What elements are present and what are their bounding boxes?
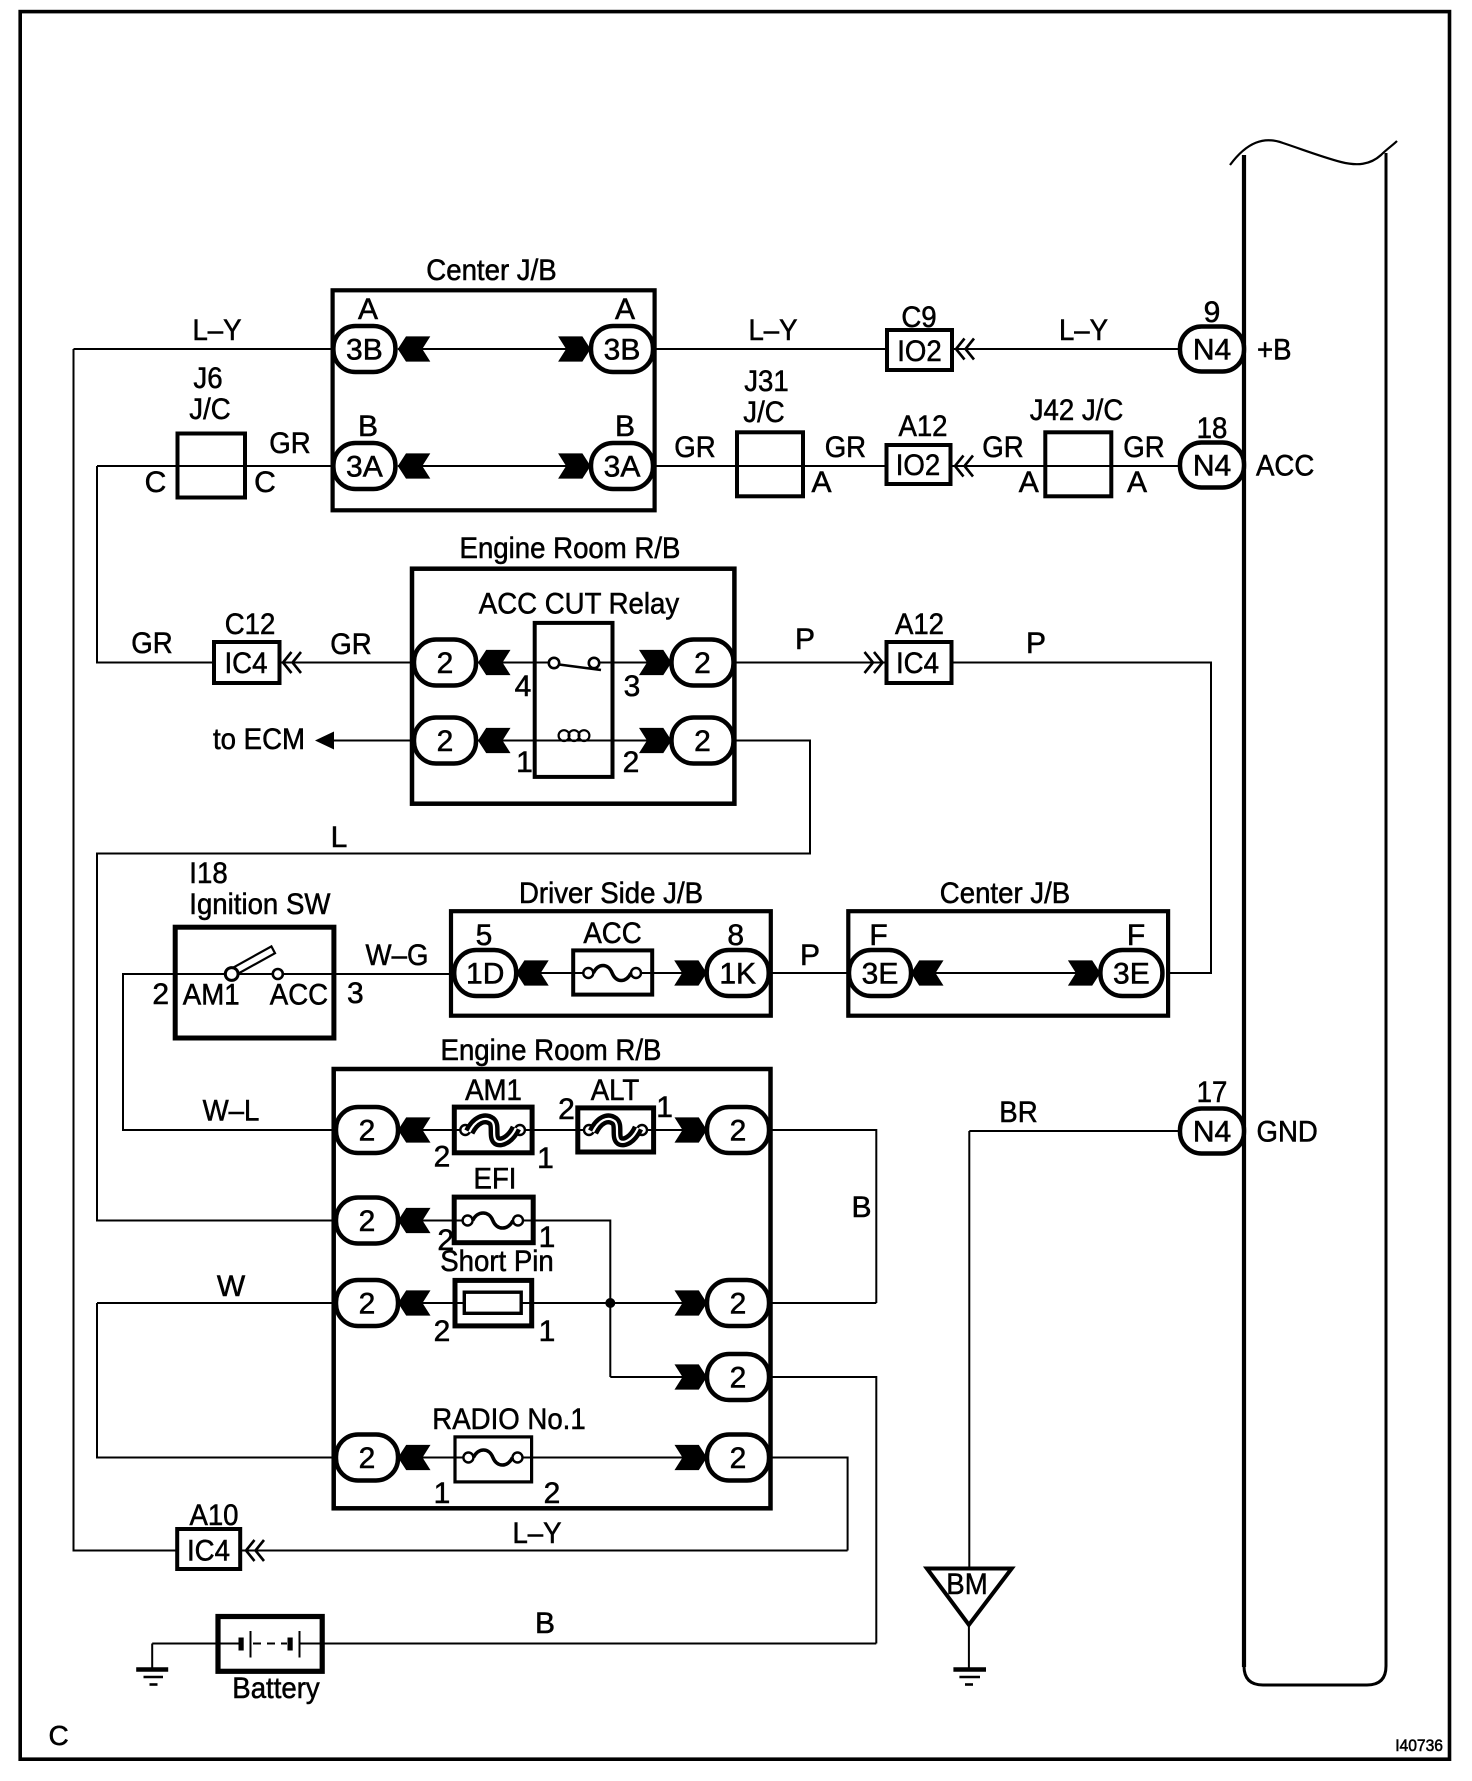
svg-text:Center J/B: Center J/B: [426, 254, 556, 287]
connector 2 relay lower-left: [414, 718, 476, 764]
svg-text:2: 2: [434, 1315, 451, 1348]
svg-text:1: 1: [516, 746, 533, 779]
svg-text:2: 2: [730, 1442, 747, 1475]
svg-text:B: B: [615, 410, 635, 443]
wire: B from battery to fourth connector vertical: [322, 1607, 876, 1644]
arrow AM1 row right: [675, 1117, 708, 1142]
relay coil: [559, 730, 590, 741]
svg-text:3B: 3B: [346, 334, 383, 367]
svg-text:Ignition SW: Ignition SW: [189, 888, 331, 921]
wire: ignition internal: [175, 973, 334, 975]
junction connector J6 J/C: [145, 362, 276, 499]
node: figure number I40736: [1395, 1736, 1443, 1755]
wire: L-Y from C9 to N4 pin 9: [952, 314, 1180, 349]
connector 2 relay lower-right: [672, 718, 734, 764]
svg-text:3A: 3A: [346, 451, 383, 484]
ground (BM side): [953, 1670, 986, 1685]
svg-text:C: C: [145, 466, 167, 499]
svg-text:L–Y: L–Y: [748, 314, 797, 347]
pin 2 of ignition: [152, 978, 169, 1011]
arrow into 3E right: [1068, 960, 1101, 985]
svg-text:3: 3: [347, 977, 364, 1010]
node: GR label right of J6: [269, 427, 310, 460]
connector 3B pin A (left): [333, 293, 395, 372]
svg-text:2: 2: [694, 647, 711, 680]
relay: ACC CUT Relay: [479, 588, 679, 621]
wire: relay row coil: [414, 740, 672, 742]
node: GR label right of J42: [1123, 431, 1164, 499]
ignition switch lever and contacts: [225, 946, 282, 980]
svg-text:2: 2: [623, 746, 640, 779]
fuse AM1 (fusible link): [434, 1074, 554, 1175]
svg-text:2: 2: [152, 978, 169, 1011]
svg-text:IO2: IO2: [896, 449, 941, 482]
svg-text:A: A: [1019, 466, 1039, 499]
pin 3 of ignition: [347, 977, 364, 1010]
connector C12 IC4: [214, 608, 301, 683]
svg-text:I40736: I40736: [1395, 1736, 1443, 1755]
svg-text:L–Y: L–Y: [1059, 314, 1108, 347]
wire: EFI output down across Short Pin row: [532, 1221, 610, 1378]
svg-text:ALT: ALT: [591, 1074, 640, 1107]
svg-text:2: 2: [434, 1141, 451, 1174]
svg-text:C12: C12: [225, 608, 276, 641]
pin 3: [624, 670, 641, 703]
svg-text:A: A: [811, 466, 831, 499]
svg-text:3E: 3E: [1113, 958, 1150, 991]
svg-text:2: 2: [437, 647, 454, 680]
svg-text:IC4: IC4: [896, 647, 939, 680]
arrow relay upper-right: [639, 650, 672, 675]
connector 2 fourth (EFI output): [707, 1354, 769, 1400]
relay inner box: [535, 623, 613, 777]
svg-text:F: F: [869, 919, 887, 952]
svg-text:AM1: AM1: [183, 978, 240, 1011]
svg-text:A: A: [1127, 466, 1147, 499]
svg-text:Short Pin: Short Pin: [440, 1245, 554, 1278]
wire: RADIO row inside: [398, 1457, 707, 1459]
svg-text:L–Y: L–Y: [192, 314, 241, 347]
svg-text:1: 1: [539, 1315, 556, 1348]
wire: harness trunk left bar: [1242, 155, 1246, 1667]
svg-text:B: B: [358, 410, 378, 443]
svg-text:F: F: [1127, 919, 1145, 952]
short pin component: [434, 1245, 556, 1348]
connector 2 AM1 row left: [336, 1107, 398, 1153]
arrow into 3E left: [911, 960, 944, 985]
svg-text:B: B: [535, 1607, 555, 1640]
pin 4: [515, 670, 532, 703]
svg-text:Battery: Battery: [232, 1672, 319, 1705]
svg-text:GR: GR: [674, 431, 715, 464]
arrow EFI row left: [398, 1208, 431, 1233]
junction block: Driver Side J/B: [451, 877, 771, 1016]
svg-text:1K: 1K: [719, 958, 756, 991]
wire: Short Pin row to B vertical: [769, 1302, 876, 1304]
svg-text:3E: 3E: [862, 958, 899, 991]
node: GR label left of J31: [674, 431, 715, 464]
node: GR label right of C12: [330, 628, 371, 661]
node: W-L label: [203, 1095, 260, 1128]
switch I18 Ignition SW: [175, 857, 334, 1038]
junction block: Center J/B (lower): [848, 877, 1168, 1016]
svg-text:Center J/B: Center J/B: [940, 877, 1070, 910]
svg-text:IC4: IC4: [225, 647, 268, 680]
svg-text:1: 1: [434, 1477, 451, 1510]
svg-text:GND: GND: [1257, 1116, 1318, 1149]
fuse EFI: [437, 1163, 555, 1258]
svg-text:2: 2: [359, 1205, 376, 1238]
svg-text:2: 2: [558, 1093, 575, 1126]
wire: P from 1K to Center J/B 3E: [769, 939, 849, 973]
svg-text:2: 2: [544, 1477, 561, 1510]
svg-text:Driver Side J/B: Driver Side J/B: [519, 877, 703, 910]
svg-text:L: L: [331, 821, 348, 854]
wire: AM1-ALT row inside: [398, 1129, 707, 1131]
connector 1D pin 5: [454, 919, 516, 996]
connector 2 AM1 row right: [707, 1107, 769, 1153]
connector 2 relay upper-left: [414, 640, 476, 686]
connector 2 RADIO row right: [707, 1435, 769, 1481]
svg-text:5: 5: [476, 919, 493, 952]
svg-text:ACC: ACC: [1256, 450, 1314, 483]
wire: L from relay coil to EFI row: [97, 741, 810, 1221]
wire: relay row contact: [414, 662, 672, 664]
svg-text:Engine Room R/B: Engine Room R/B: [441, 1034, 662, 1067]
connector 3A pin B (right): [591, 410, 653, 489]
connector 1K pin 8: [707, 919, 769, 996]
arrow relay lower-right: [639, 728, 672, 753]
svg-text:8: 8: [727, 919, 744, 952]
svg-text:ACC: ACC: [583, 917, 641, 950]
connector A12 IC4: [865, 608, 952, 683]
fuse RADIO No.1: [432, 1403, 585, 1510]
svg-text:W: W: [217, 1270, 246, 1303]
arrow into 1D: [516, 960, 549, 985]
wire: Short Pin row inside: [398, 1302, 707, 1304]
svg-text:C: C: [49, 1720, 69, 1751]
svg-text:2: 2: [359, 1442, 376, 1475]
svg-text:2: 2: [359, 1288, 376, 1321]
wire: ground to battery: [152, 1643, 218, 1645]
svg-text:GR: GR: [825, 431, 866, 464]
wire: W-G from ignition pin 3 to 1D: [334, 939, 454, 974]
svg-text:1: 1: [656, 1091, 673, 1124]
battery: [218, 1617, 322, 1706]
node: ACC contact label: [270, 978, 328, 1011]
svg-text:P: P: [1026, 627, 1046, 660]
connector A12 IO2: [887, 410, 974, 484]
wire: L-Y from Center J/B 3B down left side to A10 junction: [74, 349, 334, 1551]
svg-text:BM: BM: [946, 1568, 987, 1601]
svg-text:P: P: [795, 623, 815, 656]
arrow Short Pin row right: [675, 1290, 708, 1315]
fuse ALT (fusible link): [558, 1074, 673, 1152]
wire: P from A12 IC4 down to Center J/B 3E: [952, 627, 1212, 973]
svg-text:ACC CUT Relay: ACC CUT Relay: [479, 588, 679, 621]
svg-text:W–G: W–G: [366, 939, 429, 972]
connector 2 Short Pin row left: [336, 1280, 398, 1326]
svg-text:N4: N4: [1193, 450, 1231, 483]
connector 3E pin F (left): [849, 919, 911, 996]
junction block: Center J/B (top): [333, 254, 655, 510]
arrow RADIO row right: [675, 1445, 708, 1470]
connector N4 pin 9 (+B): [1180, 296, 1292, 372]
connector C9 IO2: [887, 301, 974, 370]
svg-text:2: 2: [359, 1115, 376, 1148]
svg-text:ACC: ACC: [270, 978, 328, 1011]
svg-text:2: 2: [437, 725, 454, 758]
svg-text:L–Y: L–Y: [512, 1517, 561, 1550]
arrow relay upper-left: [478, 650, 511, 675]
svg-text:18: 18: [1197, 412, 1228, 445]
junction dot EFI/Short Pin: [605, 1298, 615, 1308]
relay block: Engine Room R/B: [412, 532, 734, 804]
svg-text:to ECM: to ECM: [213, 723, 305, 756]
svg-text:2: 2: [730, 1362, 747, 1395]
svg-text:A12: A12: [898, 410, 947, 443]
connector 2 Short Pin row right: [707, 1280, 769, 1326]
svg-text:C: C: [254, 466, 276, 499]
ground point BM: [927, 1568, 1012, 1625]
svg-text:BR: BR: [999, 1096, 1037, 1129]
svg-text:B: B: [851, 1191, 871, 1224]
wire: P from relay to A12 IC4: [734, 623, 887, 663]
svg-text:1D: 1D: [466, 958, 504, 991]
wire: inside Driver Side J/B: [516, 972, 707, 974]
svg-text:17: 17: [1197, 1076, 1228, 1109]
svg-text:GR: GR: [330, 628, 371, 661]
wire: L-Y from A10 to RADIO vertical: [240, 1517, 847, 1551]
wire: W from Short Pin row down to RADIO row: [97, 1270, 336, 1458]
svg-text:4: 4: [515, 670, 532, 703]
arrow fourth connector: [675, 1364, 708, 1389]
svg-text:IC4: IC4: [187, 1535, 230, 1568]
fuse ACC: [573, 917, 652, 995]
arrow relay lower-left: [478, 728, 511, 753]
svg-text:Engine Room R/B: Engine Room R/B: [460, 532, 681, 565]
svg-text:AM1: AM1: [465, 1074, 522, 1107]
svg-text:J42 J/C: J42 J/C: [1030, 394, 1124, 427]
svg-text:J6: J6: [193, 362, 222, 395]
arrow into 1K: [674, 960, 707, 985]
svg-text:GR: GR: [269, 427, 310, 460]
svg-text:A: A: [358, 293, 378, 326]
svg-text:1: 1: [537, 1142, 554, 1175]
svg-text:J/C: J/C: [743, 396, 784, 429]
wire: BM to ground: [968, 1625, 970, 1668]
wire: relay contact stubs: [535, 663, 613, 741]
wire: L-Y from RADIO row down to A10 row: [769, 1458, 848, 1551]
svg-text:2: 2: [694, 725, 711, 758]
svg-text:A12: A12: [895, 608, 944, 641]
pin 2: [623, 746, 640, 779]
fuse block: Engine Room R/B (lower): [334, 1034, 771, 1508]
junction connector J42 J/C: [1030, 394, 1124, 496]
connector N4 pin 18 (ACC): [1180, 412, 1314, 488]
node: GR label left of J42: [982, 431, 1039, 499]
relay contact switch: [549, 658, 601, 670]
wire: BR from N4 pin 17 to BM: [969, 1096, 1180, 1569]
svg-text:P: P: [800, 939, 820, 972]
svg-text:GR: GR: [982, 431, 1023, 464]
svg-text:I18: I18: [189, 857, 227, 890]
svg-text:9: 9: [1204, 296, 1221, 329]
svg-text:2: 2: [730, 1115, 747, 1148]
node: L-Y label top left: [192, 314, 241, 347]
arrow into 3B left: [398, 336, 431, 361]
connector 3E pin F (right): [1100, 919, 1162, 996]
svg-text:A: A: [615, 293, 635, 326]
connector 2 relay upper-right: [672, 640, 734, 686]
connector 3B pin A (right): [591, 293, 653, 372]
svg-text:GR: GR: [1123, 431, 1164, 464]
wire: GR from J6 down to C12 row: [97, 466, 333, 663]
svg-text:GR: GR: [131, 627, 172, 660]
node: GR label right of J31: [825, 431, 866, 464]
arrow Short Pin row left: [398, 1290, 431, 1315]
node: AM1 contact label: [183, 978, 240, 1011]
svg-text:RADIO No.1: RADIO No.1: [432, 1403, 585, 1436]
wire: GR from 3A to A12 IO2: [653, 465, 886, 467]
svg-text:3A: 3A: [604, 451, 641, 484]
wire: GR C12 to relay pin 4: [280, 662, 414, 664]
connector N4 pin 17 (GND): [1180, 1076, 1318, 1154]
connector 2 EFI row left: [336, 1198, 398, 1244]
svg-text:3: 3: [624, 670, 641, 703]
node: GR label left of C12: [131, 627, 172, 660]
wire: inside Center J/B F row: [911, 972, 1100, 974]
wire: inside Center J/B row B: [398, 465, 591, 467]
wire: EFI row inside: [398, 1220, 532, 1222]
arrow into 3B right: [558, 336, 591, 361]
pin 1: [516, 746, 533, 779]
wire: inside Center J/B row A: [398, 348, 591, 350]
svg-text:+B: +B: [1257, 334, 1292, 367]
arrow RADIO row left: [398, 1445, 431, 1470]
ground (battery side): [136, 1644, 168, 1685]
wire: EFI branch to fourth connector: [610, 1376, 707, 1378]
svg-text:3B: 3B: [604, 334, 641, 367]
wire: to ECM: [213, 723, 414, 756]
svg-text:N4: N4: [1193, 1116, 1231, 1149]
wire: GR from A12 to N4 pin 18: [952, 465, 1181, 467]
svg-text:J31: J31: [744, 365, 789, 398]
node: sheet label C: [49, 1720, 69, 1751]
svg-text:IO2: IO2: [897, 335, 942, 368]
svg-text:N4: N4: [1193, 334, 1231, 367]
svg-text:J/C: J/C: [189, 393, 230, 426]
svg-text:W–L: W–L: [203, 1095, 260, 1128]
arrow AM1 row left: [398, 1117, 431, 1142]
svg-text:2: 2: [730, 1288, 747, 1321]
connector 3A pin B (left): [333, 410, 395, 489]
svg-text:EFI: EFI: [474, 1163, 517, 1196]
junction connector J31 J/C: [737, 365, 832, 499]
wire: B from AM1 row to Short Pin row: [769, 1130, 876, 1303]
wire: B from fourth connector down to battery wire: [769, 1377, 876, 1644]
connector 2 RADIO row left: [336, 1435, 398, 1481]
wire: W-L from ignition pin 2 down to AM1 row: [123, 974, 336, 1130]
arrow into 3A right: [558, 453, 591, 478]
arrow into 3A left: [398, 453, 431, 478]
connector A10 IC4: [177, 1499, 264, 1569]
wire: harness trunk torn-edge wavy top: [1230, 140, 1397, 165]
wire: harness trunk right bar and rounded bottom: [1244, 153, 1386, 1685]
wire: L-Y from 3B to C9: [653, 314, 887, 349]
